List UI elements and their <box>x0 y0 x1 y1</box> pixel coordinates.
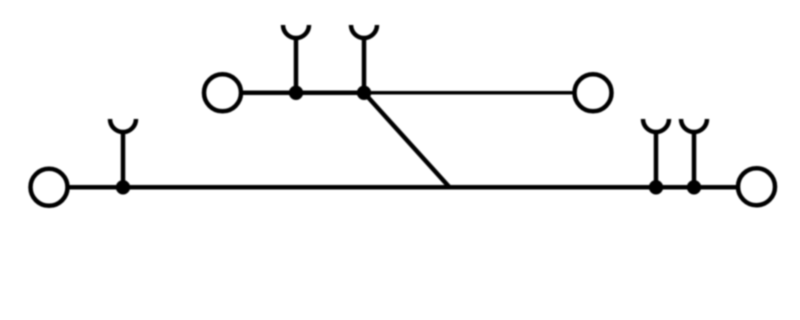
junction node at Y1 <box>289 86 303 100</box>
wire: upper level, right segment (thin) <box>364 91 575 95</box>
wire: lower level bus <box>68 185 739 190</box>
clamp contact Y1 (upper level) <box>283 25 309 93</box>
junction node at Y3 <box>116 180 130 194</box>
wire: upper level bus, left segment <box>241 91 364 96</box>
clamp contact Y4 (lower level, right pair first) <box>643 119 669 187</box>
clamp contact Y3 (lower level, left) <box>110 119 136 187</box>
clamp contact Y5 (lower level, right pair second) <box>681 119 707 187</box>
terminal circle P3 (lower level, left) <box>31 169 68 206</box>
clamp contact Y2 (upper level) <box>351 25 377 93</box>
terminal circle P4 (lower level, right) <box>738 168 775 205</box>
terminal circle P1 (upper level, left) <box>204 74 241 111</box>
junction node at Y4 <box>649 180 663 194</box>
junction node at Y5 <box>687 180 701 194</box>
junction node at Y2 <box>357 86 371 100</box>
terminal circle P2 (upper level, right) <box>575 74 612 111</box>
wire: cross-connection diagonal between levels <box>364 93 450 188</box>
